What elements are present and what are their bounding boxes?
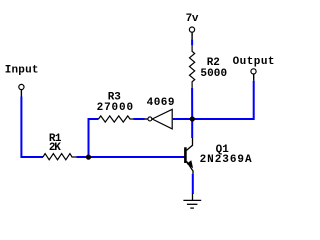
transistor Q1 collector stroke: [187, 138, 193, 150]
input terminal stem: [20, 90, 22, 97]
output terminal: [251, 69, 256, 74]
transistor Q1 base bar: [184, 147, 187, 163]
wire junction up to R3 row: [89, 119, 99, 157]
svg-text:Input: Input: [5, 65, 39, 77]
inverter U1 input lead: [145, 118, 148, 120]
7v supply terminal: [189, 27, 194, 32]
wire R3 to inverter input: [134, 118, 145, 120]
wire emitter to ground: [192, 174, 194, 194]
svg-text:Output: Output: [233, 56, 275, 68]
wire 7v to R2: [191, 39, 193, 45]
output terminal stem: [253, 74, 255, 81]
wire R2 down to junction and to Q1 collector: [191, 88, 193, 138]
wire inverter output to junction: [173, 118, 192, 120]
op-amp U1 inverter 4069 input bubble: [148, 117, 152, 121]
resistor R1: [43, 154, 77, 160]
op-amp U1 inverter 4069 triangle: [152, 109, 172, 129]
wire R1 to junction and base wire to Q1: [77, 156, 185, 158]
ground: [183, 194, 201, 209]
wire input vertical down and right to R1: [21, 97, 43, 158]
resistor R2: [190, 45, 195, 88]
junction node at R1 / R3 / base: [86, 155, 91, 160]
input terminal: [19, 84, 24, 89]
svg-text:5000: 5000: [200, 68, 227, 80]
svg-text:27000: 27000: [97, 102, 134, 114]
wire output terminal down and left to junction: [194, 81, 254, 119]
transistor Q1 emitter stroke with arrow: [187, 161, 194, 174]
svg-text:4069: 4069: [147, 97, 175, 109]
svg-text:2K: 2K: [49, 142, 61, 154]
junction node collector / output / inverter: [190, 116, 195, 121]
resistor R3: [99, 116, 134, 122]
svg-text:2N2369A: 2N2369A: [200, 154, 252, 166]
7v terminal stem: [191, 32, 193, 39]
svg-text:7v: 7v: [186, 13, 199, 25]
